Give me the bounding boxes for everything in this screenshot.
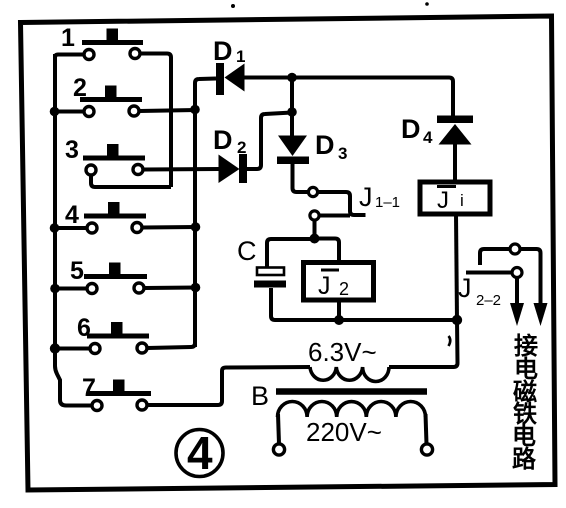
wire button3 right to D2 bbox=[144, 167, 220, 172]
diode D1 bbox=[216, 63, 245, 95]
wire capacitor to bottom wire bbox=[271, 288, 457, 320]
wire button3 left jog bbox=[91, 176, 171, 188]
junction dot rail left row6 bbox=[50, 343, 60, 353]
junction dot mid rail row4 bbox=[191, 222, 201, 232]
wire J2-2 down arrow stem bbox=[515, 278, 519, 305]
wire button6 right to rail bbox=[148, 343, 196, 348]
wire 6.3V right lead bbox=[389, 320, 458, 367]
label J2-2 bbox=[458, 273, 501, 309]
junction dot J2 bottom bbox=[334, 315, 344, 325]
wire J2-2 to right arrow bbox=[520, 249, 541, 304]
svg-text:2: 2 bbox=[339, 279, 349, 299]
diode D3 bbox=[277, 136, 309, 165]
wire node to capacitor bbox=[267, 239, 315, 267]
relay coil J2 bbox=[304, 263, 374, 301]
pushbutton 7 bbox=[89, 380, 151, 411]
svg-text:B: B bbox=[251, 381, 269, 411]
arrow right bbox=[534, 303, 548, 326]
capacitor C top plate bbox=[257, 268, 284, 276]
relay coil J1 bbox=[420, 182, 490, 214]
junction dot top left bbox=[287, 73, 297, 83]
contact J2-2 lower terminal bbox=[512, 268, 522, 278]
pushbutton 1 bbox=[82, 29, 143, 60]
svg-text:6: 6 bbox=[77, 314, 91, 342]
wire node to relay J2 bbox=[315, 239, 340, 263]
wire contact to node bbox=[313, 220, 317, 239]
contact J1-1 lower terminal bbox=[310, 211, 319, 220]
winding 220V bbox=[278, 401, 426, 417]
junction dot rail left row2 bbox=[50, 107, 60, 117]
contact J2-2 upper terminal bbox=[510, 244, 520, 254]
diode D4 bbox=[437, 116, 473, 145]
wire D3 to contact J1-1 bbox=[293, 164, 309, 192]
wire rail to button7 bbox=[55, 349, 92, 406]
svg-text:D: D bbox=[401, 114, 421, 144]
svg-text:D: D bbox=[315, 130, 335, 160]
pushbutton 2 bbox=[80, 86, 142, 117]
wire J2-2 lower lead bbox=[466, 271, 512, 275]
wire J1-1 lower lead bbox=[320, 214, 350, 218]
arrow left bbox=[510, 303, 524, 326]
label D4 bbox=[401, 114, 433, 147]
svg-text:i: i bbox=[460, 191, 464, 210]
svg-text:6.3V~: 6.3V~ bbox=[308, 337, 377, 367]
label D1 bbox=[213, 36, 245, 66]
label D3 bbox=[315, 130, 347, 163]
terminal 220V right bbox=[421, 444, 432, 455]
svg-text:路: 路 bbox=[512, 445, 537, 473]
wire 220V right lead bbox=[426, 414, 427, 444]
junction dot mid rail row2 bbox=[190, 105, 200, 115]
wire J2-2 upper hook bbox=[480, 249, 510, 265]
annotation to electromagnet circuit bbox=[512, 333, 538, 473]
pushbutton 4 bbox=[84, 202, 146, 233]
wire button1 left to rail bbox=[55, 54, 84, 58]
wire 220V left lead bbox=[278, 414, 279, 444]
svg-text:C: C bbox=[237, 236, 257, 266]
svg-text:1: 1 bbox=[61, 24, 75, 52]
svg-text:J: J bbox=[318, 272, 331, 300]
tick mark bbox=[449, 336, 451, 346]
junction dot rail left row5 bbox=[50, 284, 60, 294]
pushbutton 5 bbox=[84, 263, 147, 294]
svg-text:4: 4 bbox=[65, 201, 79, 229]
wire button7 right to transformer bbox=[148, 367, 311, 405]
pushbutton 6 bbox=[87, 322, 149, 354]
svg-text:D: D bbox=[213, 36, 233, 66]
svg-text:4: 4 bbox=[187, 427, 213, 479]
junction dot rail left row4 bbox=[50, 223, 60, 233]
wire button4 left bbox=[54, 226, 87, 230]
svg-text:3: 3 bbox=[65, 136, 79, 164]
svg-text:J: J bbox=[458, 273, 472, 303]
wire button2 right bbox=[140, 110, 197, 111]
svg-text:7: 7 bbox=[82, 374, 96, 402]
svg-text:J: J bbox=[437, 187, 449, 214]
wire D2 cathode up to node bbox=[246, 113, 292, 170]
svg-text:5: 5 bbox=[70, 257, 84, 285]
svg-text:4: 4 bbox=[423, 128, 433, 147]
junction dot mid rail row5 bbox=[191, 283, 201, 293]
wire button1 right to mid rail bbox=[141, 54, 172, 188]
wire J2 to bottom wire bbox=[337, 300, 341, 320]
junction dot bottom right bbox=[452, 315, 462, 325]
wire button2 left bbox=[54, 110, 84, 114]
wire diode rail vertical bbox=[195, 79, 216, 346]
wire button4 right bbox=[143, 225, 197, 230]
svg-text:2: 2 bbox=[73, 74, 87, 102]
winding 6.3V bbox=[310, 367, 389, 382]
wire top node to D4 bbox=[292, 78, 453, 117]
svg-text:J: J bbox=[359, 182, 373, 212]
svg-text:1–1: 1–1 bbox=[375, 194, 400, 211]
contact J1-1 upper terminal bbox=[308, 187, 317, 196]
svg-text:2: 2 bbox=[237, 138, 246, 157]
transformer core B bbox=[276, 388, 427, 395]
junction dot node A bbox=[310, 234, 320, 244]
svg-text:D: D bbox=[213, 125, 233, 155]
svg-text:220V~: 220V~ bbox=[306, 417, 382, 447]
diode D2 bbox=[219, 154, 248, 183]
wire button5 right bbox=[145, 286, 197, 291]
wire button5 left bbox=[54, 287, 87, 291]
wire top node down bbox=[290, 78, 294, 137]
wire D1 to top node bbox=[244, 76, 292, 80]
label J1-1 bbox=[359, 182, 400, 212]
wire J1 down to bottom node bbox=[456, 214, 457, 320]
speck top right bbox=[425, 2, 429, 6]
svg-text:3: 3 bbox=[338, 144, 347, 163]
label D2 bbox=[213, 125, 246, 157]
svg-text:1: 1 bbox=[236, 47, 245, 66]
svg-text:2–2: 2–2 bbox=[476, 292, 501, 309]
capacitor C bottom plate bbox=[254, 281, 286, 288]
speck top left bbox=[231, 4, 235, 8]
wire left rail bbox=[53, 55, 57, 349]
pushbutton 3 bbox=[83, 144, 145, 175]
junction dot D2 branch bbox=[287, 107, 297, 117]
wire D4 to relay J1 bbox=[453, 144, 457, 182]
wire J1-1 fixed lead bbox=[318, 192, 366, 215]
terminal 220V left bbox=[273, 444, 284, 455]
figure number 4 bbox=[176, 427, 223, 479]
wire button6 left bbox=[54, 347, 90, 351]
